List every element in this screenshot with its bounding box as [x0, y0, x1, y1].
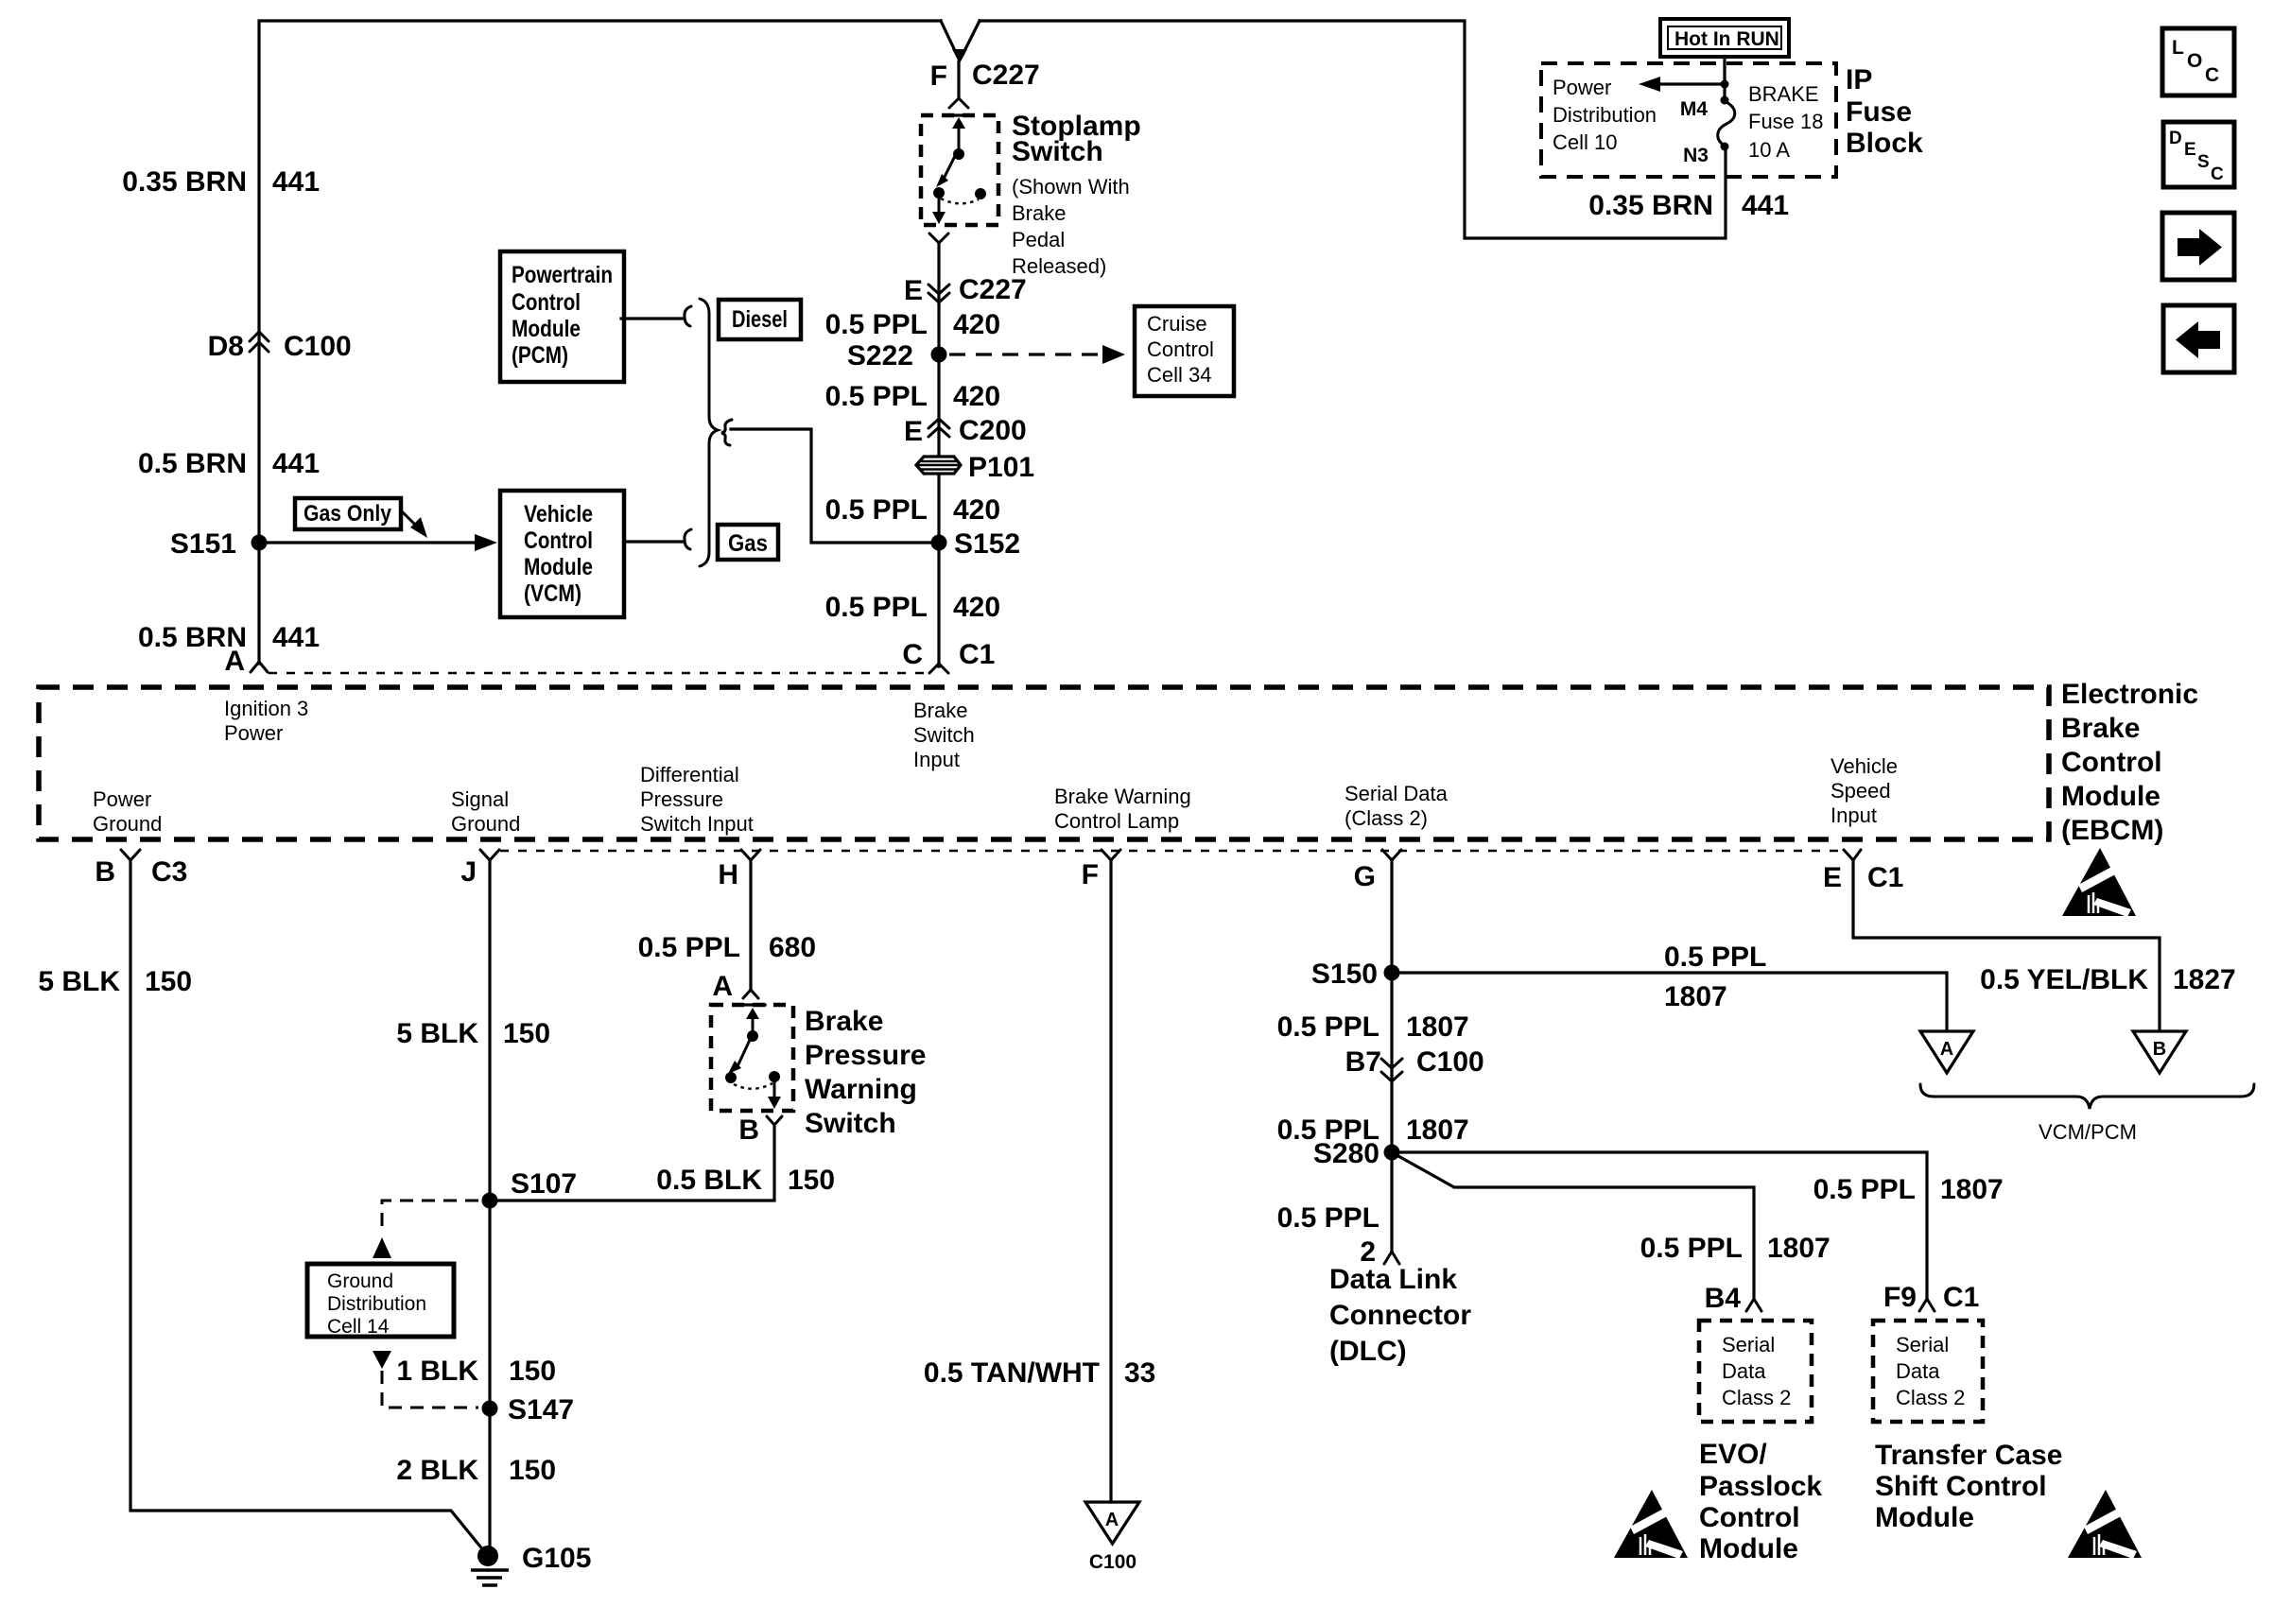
- svg-text:Cell 14: Cell 14: [327, 1316, 390, 1338]
- svg-text:EVO/: EVO/: [1699, 1439, 1767, 1470]
- svg-text:420: 420: [953, 381, 1000, 412]
- svg-text:S107: S107: [511, 1168, 577, 1200]
- svg-text:5 BLK: 5 BLK: [38, 966, 120, 997]
- dashed link S107 to ground distribution: [382, 1201, 478, 1235]
- svg-text:C1: C1: [1943, 1282, 1979, 1313]
- ground distribution cell 14 box: [307, 1264, 454, 1337]
- svg-text:D: D: [2169, 129, 2182, 148]
- svg-text:C3: C3: [151, 856, 187, 888]
- svg-text:150: 150: [509, 1455, 556, 1486]
- svg-text:Transfer Case: Transfer Case: [1875, 1440, 2062, 1471]
- pressure switch fixed contact bar: [740, 1003, 765, 1006]
- svg-text:Data: Data: [1896, 1359, 1940, 1383]
- fuse 18 element: [1718, 101, 1735, 146]
- svg-text:441: 441: [1742, 190, 1789, 221]
- terminal N3: [1721, 143, 1729, 151]
- svg-text:S222: S222: [847, 340, 913, 371]
- svg-text:Serial: Serial: [1722, 1333, 1775, 1356]
- wire S150 to VCM/PCM A: [1399, 973, 1947, 1029]
- svg-text:150: 150: [145, 966, 192, 997]
- svg-text:Passlock: Passlock: [1699, 1471, 1822, 1502]
- svg-text:(VCM): (VCM): [524, 580, 581, 607]
- svg-text:1827: 1827: [2173, 964, 2236, 995]
- svg-text:Control: Control: [1699, 1502, 1800, 1533]
- svg-text:B: B: [95, 856, 115, 888]
- svg-text:Power: Power: [1553, 76, 1611, 99]
- in-line connector E C227 (double chevron): [928, 285, 949, 302]
- svg-text:Distribution: Distribution: [327, 1293, 426, 1315]
- wire brake warning lamp F drop: [1109, 859, 1112, 1502]
- wire to power distribution (arrow): [1660, 82, 1725, 85]
- svg-text:Ground: Ground: [327, 1270, 393, 1292]
- svg-text:N3: N3: [1683, 145, 1709, 166]
- wire VCM to gas brace: [624, 540, 683, 543]
- svg-text:Power: Power: [93, 787, 151, 811]
- connector C1 shared dashed line (bottom): [500, 850, 1844, 853]
- next nav box (right arrow): [2162, 213, 2234, 280]
- svg-text:0.5 PPL: 0.5 PPL: [825, 592, 928, 623]
- svg-text:B: B: [738, 1114, 759, 1146]
- svg-text:0.5 PPL: 0.5 PPL: [638, 932, 740, 963]
- connector C1 shared dashed line (top): [269, 672, 929, 675]
- svg-text:Pressure: Pressure: [640, 787, 723, 811]
- stoplamp switch movable arm (upper): [958, 125, 961, 151]
- svg-text:Brake Warning: Brake Warning: [1054, 785, 1191, 808]
- svg-text:5 BLK: 5 BLK: [396, 1018, 478, 1049]
- svg-text:Module: Module: [512, 316, 581, 342]
- wire S280 to transfer case: [1399, 1152, 1927, 1299]
- svg-text:Switch: Switch: [805, 1108, 896, 1139]
- svg-text:Control: Control: [512, 289, 581, 316]
- svg-text:441: 441: [272, 622, 320, 653]
- svg-text:Shift Control: Shift Control: [1875, 1471, 2047, 1502]
- svg-text:Data: Data: [1722, 1359, 1766, 1383]
- pressure switch lower contact arrow: [773, 1080, 776, 1098]
- svg-text:S150: S150: [1311, 959, 1378, 990]
- svg-text:C200: C200: [959, 415, 1027, 446]
- svg-text:0.5 PPL: 0.5 PPL: [825, 309, 928, 340]
- svg-text:B7: B7: [1345, 1046, 1381, 1078]
- svg-text:S151: S151: [170, 528, 236, 560]
- svg-text:C227: C227: [972, 60, 1040, 91]
- svg-text:Gas: Gas: [728, 530, 768, 557]
- svg-text:Module: Module: [2061, 781, 2160, 812]
- connector chevron below stoplamp box: [929, 233, 948, 243]
- svg-text:420: 420: [953, 592, 1000, 623]
- svg-text:Input: Input: [1831, 803, 1877, 827]
- svg-text:0.5 PPL: 0.5 PPL: [1640, 1233, 1743, 1264]
- svg-text:IP: IP: [1846, 64, 1872, 95]
- splice S152: [931, 535, 947, 551]
- wire top feed right segment: [980, 21, 1726, 238]
- svg-text:C1: C1: [959, 639, 995, 670]
- dashed link ground distribution to S147: [373, 1351, 391, 1369]
- svg-text:Switch: Switch: [1012, 136, 1103, 167]
- svg-text:Control Lamp: Control Lamp: [1054, 809, 1179, 833]
- svg-text:B4: B4: [1705, 1283, 1742, 1314]
- svg-text:C1: C1: [1867, 862, 1903, 893]
- svg-text:Block: Block: [1846, 128, 1923, 159]
- svg-text:Serial Data: Serial Data: [1345, 782, 1449, 805]
- svg-text:0.5 BLK: 0.5 BLK: [656, 1165, 762, 1196]
- svg-text:C227: C227: [959, 274, 1027, 305]
- svg-text:Ground: Ground: [93, 812, 162, 836]
- svg-text:0.5 YEL/BLK: 0.5 YEL/BLK: [1980, 964, 2148, 995]
- EBCM module dashed box: [39, 687, 2049, 839]
- svg-text:Hot In RUN: Hot In RUN: [1674, 28, 1779, 50]
- svg-text:Switch: Switch: [913, 723, 975, 747]
- svg-text:Pressure: Pressure: [805, 1040, 926, 1071]
- svg-text:Switch Input: Switch Input: [640, 812, 754, 836]
- stoplamp switch alternate contact: [975, 188, 986, 199]
- wire 420 stoplamp to EBCM pin C: [937, 243, 940, 666]
- svg-text:Serial: Serial: [1896, 1333, 1949, 1356]
- svg-text:150: 150: [503, 1018, 550, 1049]
- ESD symbol transfer case: [2068, 1490, 2142, 1559]
- svg-text:Brake: Brake: [805, 1006, 883, 1037]
- connector pin F of C227 (chevron): [949, 98, 968, 108]
- svg-text:0.35 BRN: 0.35 BRN: [122, 166, 247, 198]
- svg-text:Class 2: Class 2: [1722, 1386, 1791, 1409]
- in-line connector D8 C100 (double chevron up): [250, 332, 269, 352]
- svg-text:S: S: [2197, 152, 2210, 172]
- svg-text:Cell 10: Cell 10: [1553, 130, 1617, 154]
- svg-text:420: 420: [953, 494, 1000, 526]
- loc nav box: [2162, 28, 2234, 95]
- svg-text:Control: Control: [1147, 337, 1214, 361]
- wire top feed from EBCM pin A to fuse block: [259, 21, 941, 664]
- svg-text:S152: S152: [954, 528, 1020, 560]
- svg-text:(PCM): (PCM): [512, 342, 568, 369]
- svg-text:C100: C100: [1089, 1551, 1136, 1573]
- svg-text:0.5 BRN: 0.5 BRN: [138, 448, 247, 479]
- svg-text:Gas Only: Gas Only: [304, 501, 392, 527]
- svg-text:E: E: [904, 416, 923, 447]
- wire hot in run drop: [1723, 57, 1726, 96]
- stoplamp switch arm diagonal: [943, 152, 957, 181]
- ESD symbol EBCM: [2062, 848, 2136, 917]
- brake pressure warning switch dashed box: [711, 1005, 793, 1111]
- svg-text:E: E: [1823, 862, 1842, 893]
- desc nav box: [2163, 122, 2234, 187]
- svg-text:0.5 PPL: 0.5 PPL: [825, 494, 928, 526]
- grommet P101: [916, 457, 961, 474]
- svg-text:Cell 34: Cell 34: [1147, 363, 1211, 387]
- wire S107 to pressure switch B: [490, 1127, 774, 1201]
- svg-text:1807: 1807: [1664, 981, 1727, 1012]
- svg-text:E: E: [2184, 140, 2196, 160]
- svg-text:Vehicle: Vehicle: [1831, 754, 1898, 778]
- svg-text:M4: M4: [1680, 98, 1708, 120]
- svg-text:A: A: [224, 646, 245, 677]
- diesel flag box: [719, 300, 801, 339]
- svg-text:Ground: Ground: [451, 812, 520, 836]
- splice S222: [931, 347, 947, 363]
- svg-text:Distribution: Distribution: [1553, 103, 1657, 127]
- svg-text:Cruise: Cruise: [1147, 312, 1207, 336]
- svg-text:D8: D8: [208, 331, 244, 362]
- svg-text:C100: C100: [1416, 1046, 1484, 1078]
- svg-text:G105: G105: [522, 1543, 591, 1574]
- svg-text:Powertrain: Powertrain: [512, 262, 613, 288]
- svg-text:33: 33: [1124, 1357, 1155, 1389]
- svg-text:Brake: Brake: [913, 699, 967, 722]
- off-page triangle A C100: [1085, 1502, 1139, 1544]
- off-page triangle B to VCM/PCM: [2133, 1031, 2186, 1073]
- wire PCM to diesel brace: [621, 317, 683, 320]
- wire vehicle speed E to VCM/PCM B: [1853, 859, 2160, 1029]
- svg-text:J: J: [460, 856, 477, 888]
- ESD symbol EVO: [1614, 1490, 1688, 1559]
- svg-text:0.5 TAN/WHT: 0.5 TAN/WHT: [924, 1357, 1100, 1389]
- svg-text:150: 150: [509, 1356, 556, 1387]
- svg-text:Differential: Differential: [640, 763, 739, 786]
- svg-text:1807: 1807: [1406, 1114, 1469, 1146]
- stoplamp switch lower contact arrow: [938, 196, 941, 214]
- svg-text:0.5 PPL: 0.5 PPL: [825, 381, 928, 412]
- node V-notch arrow into stoplamp feed: [941, 21, 980, 57]
- svg-text:Vehicle: Vehicle: [524, 501, 593, 527]
- svg-text:(DLC): (DLC): [1329, 1336, 1407, 1367]
- hot in run box: [1660, 19, 1789, 57]
- cruise control cell 34 box: [1135, 306, 1234, 396]
- wire stoplamp drop F C227: [957, 61, 960, 97]
- ground G105: [477, 1546, 498, 1566]
- svg-text:L: L: [2172, 37, 2184, 59]
- gas only arrow: [401, 510, 414, 524]
- svg-text:10 A: 10 A: [1748, 138, 1790, 162]
- svg-text:Electronic: Electronic: [2061, 679, 2198, 710]
- VCM/PCM group brace: [1920, 1084, 2254, 1109]
- svg-text:Pedal: Pedal: [1012, 228, 1065, 251]
- svg-text:Speed: Speed: [1831, 779, 1891, 803]
- gas only flag box: [295, 498, 401, 529]
- svg-text:O: O: [2187, 50, 2202, 72]
- svg-text:Module: Module: [1699, 1533, 1798, 1564]
- svg-text:Power: Power: [224, 721, 283, 745]
- svg-text:2 BLK: 2 BLK: [396, 1455, 478, 1486]
- splice S280: [1384, 1145, 1400, 1161]
- hook at PCM wire end: [685, 306, 691, 326]
- svg-text:680: 680: [769, 932, 816, 963]
- prev nav box (left arrow): [2163, 305, 2234, 372]
- hook at VCM wire end: [685, 529, 691, 549]
- svg-text:0.5 PPL: 0.5 PPL: [1664, 942, 1766, 973]
- svg-text:Warning: Warning: [805, 1074, 917, 1105]
- svg-text:BRAKE: BRAKE: [1748, 82, 1819, 106]
- wire differential pressure H drop: [749, 859, 752, 988]
- svg-text:1807: 1807: [1406, 1011, 1469, 1043]
- svg-text:C: C: [2205, 64, 2219, 86]
- svg-text:Signal: Signal: [451, 787, 509, 811]
- stoplamp switch fixed contact bar: [946, 113, 971, 116]
- powertrain control module PCM box: [500, 251, 624, 382]
- svg-text:C100: C100: [284, 331, 352, 362]
- svg-text:Brake: Brake: [1012, 201, 1066, 225]
- svg-text:B: B: [2153, 1039, 2166, 1060]
- stoplamp switch dotted travel arc: [941, 199, 979, 203]
- svg-text:Module: Module: [524, 554, 593, 580]
- wire S151 to VCM: [267, 541, 475, 544]
- dashed reference arrow to cruise control: [949, 353, 1101, 355]
- svg-text:S280: S280: [1313, 1138, 1379, 1169]
- wire signal ground J to G105: [488, 859, 491, 1556]
- terminal M4: [1721, 96, 1729, 105]
- pressure switch movable arm: [752, 1015, 755, 1034]
- serial data class 2 box (EVO): [1699, 1321, 1812, 1422]
- svg-text:(EBCM): (EBCM): [2061, 815, 2163, 846]
- svg-text:Control: Control: [2061, 747, 2162, 778]
- splice S151: [252, 535, 268, 551]
- pressure switch arm diagonal: [737, 1038, 751, 1066]
- svg-text:Diesel: Diesel: [732, 306, 788, 333]
- svg-text:A: A: [712, 971, 733, 1002]
- svg-text:A: A: [1940, 1039, 1953, 1060]
- svg-text:G: G: [1354, 861, 1376, 892]
- svg-text:VCM/PCM: VCM/PCM: [2039, 1120, 2137, 1144]
- svg-text:E: E: [904, 275, 923, 306]
- svg-text:Module: Module: [1875, 1502, 1974, 1533]
- svg-text:C: C: [902, 639, 923, 670]
- svg-text:Connector: Connector: [1329, 1300, 1471, 1331]
- svg-text:Fuse: Fuse: [1846, 96, 1912, 128]
- off-page triangle A to VCM/PCM: [1920, 1031, 1973, 1073]
- splice S150: [1384, 965, 1400, 981]
- gas flag box: [718, 525, 778, 560]
- wire serial data G drop: [1390, 859, 1393, 1252]
- svg-text:H: H: [718, 859, 738, 890]
- IP fuse block dashed box: [1541, 63, 1836, 177]
- svg-text:150: 150: [788, 1165, 835, 1196]
- svg-text:S147: S147: [508, 1394, 574, 1425]
- svg-text:F: F: [1082, 859, 1099, 890]
- svg-text:Brake: Brake: [2061, 713, 2140, 744]
- big alternatives brace: [700, 299, 718, 566]
- hook at brace output: [721, 420, 732, 445]
- svg-text:1807: 1807: [1940, 1174, 2004, 1205]
- svg-text:0.5 PPL: 0.5 PPL: [1277, 1011, 1379, 1043]
- svg-text:(Class 2): (Class 2): [1345, 806, 1428, 830]
- svg-text:P101: P101: [968, 452, 1034, 483]
- svg-text:C: C: [2211, 164, 2224, 184]
- stoplamp switch dashed box: [921, 115, 998, 225]
- svg-text:Fuse 18: Fuse 18: [1748, 110, 1824, 133]
- svg-text:1 BLK: 1 BLK: [396, 1356, 478, 1387]
- svg-text:0.5 PPL: 0.5 PPL: [1813, 1174, 1916, 1205]
- svg-text:F: F: [930, 60, 947, 92]
- svg-text:Input: Input: [913, 748, 960, 771]
- svg-text:1807: 1807: [1767, 1233, 1831, 1264]
- splice S147: [482, 1401, 498, 1417]
- svg-text:Data Link: Data Link: [1329, 1264, 1457, 1295]
- splice S107: [482, 1193, 498, 1209]
- svg-text:420: 420: [953, 309, 1000, 340]
- serial data class 2 box (transfer case): [1873, 1321, 1983, 1422]
- wire gas alternative to S152: [731, 429, 931, 543]
- svg-text:0.5 PPL: 0.5 PPL: [1277, 1202, 1379, 1234]
- pressure switch dotted travel arc: [734, 1083, 772, 1089]
- svg-text:A: A: [1105, 1510, 1119, 1530]
- svg-text:Ignition 3: Ignition 3: [224, 697, 308, 720]
- svg-text:F9: F9: [1883, 1282, 1917, 1313]
- svg-text:441: 441: [272, 166, 320, 198]
- pressure switch alternate contact: [769, 1071, 780, 1082]
- wire power ground B to G105: [130, 859, 488, 1556]
- svg-text:Class 2: Class 2: [1896, 1386, 1965, 1409]
- svg-text:441: 441: [272, 448, 320, 479]
- vehicle control module VCM box: [500, 491, 624, 617]
- svg-text:(Shown With: (Shown With: [1012, 175, 1130, 199]
- svg-text:0.35 BRN: 0.35 BRN: [1588, 190, 1713, 221]
- svg-text:Control: Control: [524, 527, 593, 554]
- wire S280 to EVO passlock: [1398, 1156, 1754, 1299]
- node feed junction: [1721, 80, 1729, 89]
- in-line connector E C200 (double chevron up): [928, 419, 949, 437]
